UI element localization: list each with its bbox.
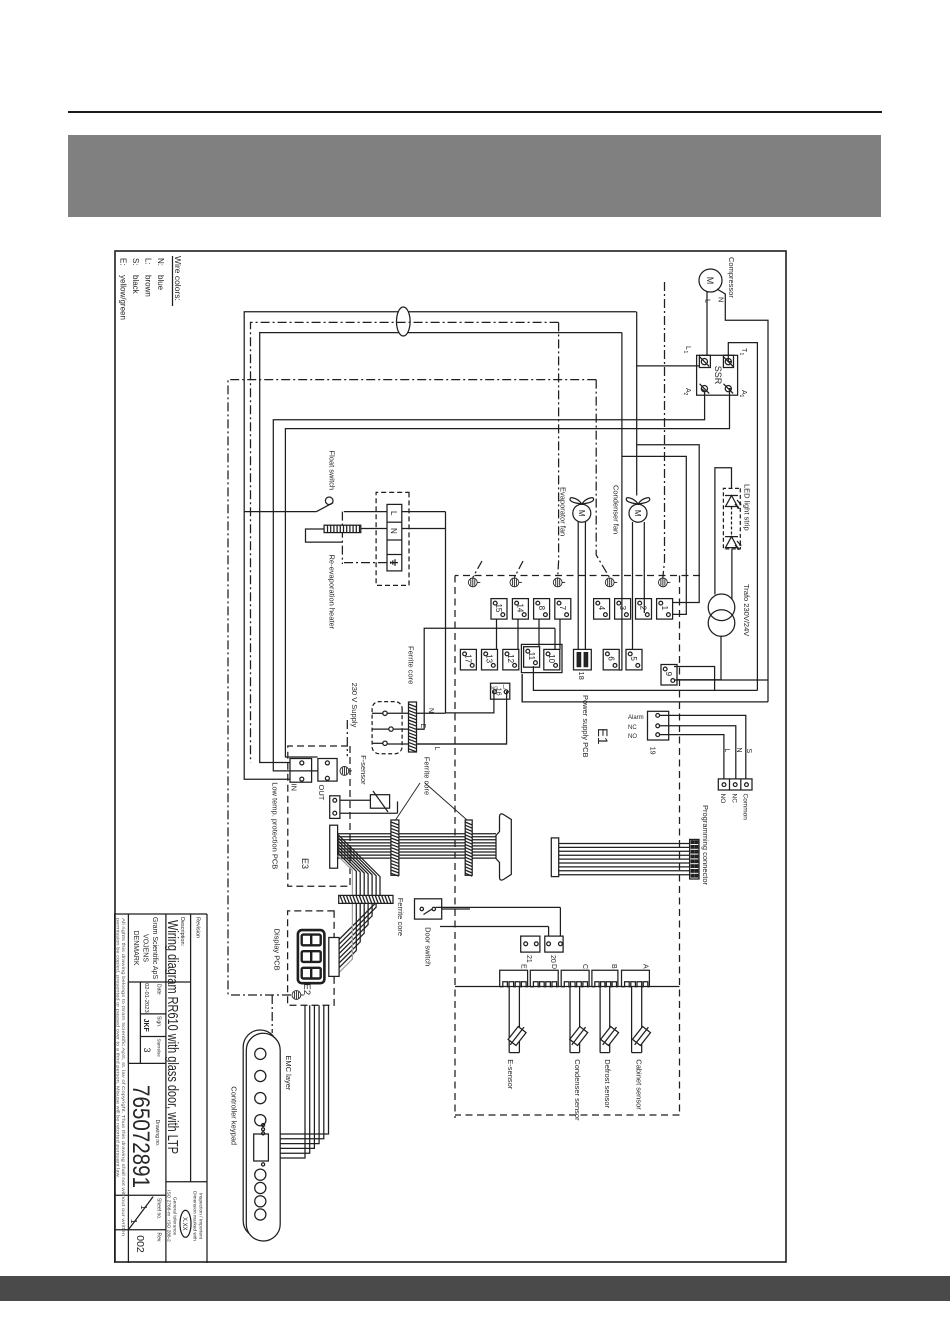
svg-text:C: C: [581, 964, 588, 969]
wire 8 to 11: [538, 619, 540, 647]
svg-text:M: M: [633, 510, 642, 517]
dash-dot earth link: [341, 512, 343, 564]
wire SSR A2 to OUT: [273, 389, 704, 771]
svg-text:14: 14: [516, 603, 525, 612]
svg-text:2: 2: [682, 393, 688, 396]
svg-text:18: 18: [577, 672, 586, 680]
float switch: [317, 497, 334, 512]
wire LED left to trafo: [715, 468, 732, 595]
terminal 14: [512, 599, 528, 620]
svg-text:Sign.: Sign.: [156, 1016, 162, 1027]
svg-text:EMC layer: EMC layer: [284, 1055, 293, 1091]
wire 15 to 13: [496, 619, 498, 649]
terminal 2: [636, 599, 652, 620]
svg-text:SSR: SSR: [713, 366, 723, 385]
ground symbol G1: [468, 578, 480, 587]
Defrost sensor: [599, 987, 621, 1053]
wire F-sensor b: [340, 812, 398, 814]
svg-text:15: 15: [494, 603, 503, 612]
terminal 10: [544, 649, 560, 670]
svg-text:Float switch: Float switch: [328, 451, 337, 491]
wire NC: [660, 726, 736, 779]
svg-text:Low temp. protection PCB: Low temp. protection PCB: [271, 782, 280, 869]
230 V supply connector: [372, 702, 402, 754]
svg-text:General tolerance: General tolerance: [172, 1197, 178, 1235]
title block: [114, 914, 207, 1263]
svg-text:Controller keypad: Controller keypad: [230, 1086, 239, 1145]
svg-text:yellow/green: yellow/green: [119, 275, 128, 320]
wire 16 L to supply L: [416, 692, 509, 744]
svg-text:Condenser sensor: Condenser sensor: [573, 1059, 582, 1121]
svg-text:Evaporator fan: Evaporator fan: [559, 487, 568, 536]
connector D: [530, 970, 558, 986]
wire door switch a: [436, 906, 561, 908]
dashed E1 top: [679, 576, 681, 1114]
wire L cell up: [402, 511, 446, 513]
svg-text:B: B: [610, 964, 617, 969]
ground symbol G5: [659, 578, 671, 587]
wire alarm to common: [660, 715, 746, 779]
svg-text:E1: E1: [595, 728, 610, 745]
connector C: [561, 970, 589, 986]
wire SSR A1 to OUT: [285, 389, 731, 757]
programming connector: [690, 839, 699, 879]
svg-text:765072891: 765072891: [127, 1085, 154, 1188]
EMC layer outline: [243, 1030, 277, 1238]
fuse 18: [574, 649, 592, 670]
IN connector: [290, 759, 312, 783]
svg-text:Defrost sensor: Defrost sensor: [603, 1059, 612, 1108]
outer bracket terminals 10 11: [521, 644, 562, 672]
wire cond fan to terminal 2: [643, 522, 645, 613]
svg-text:Wire colors:: Wire colors:: [173, 256, 183, 301]
wires display to keypad: [268, 1005, 328, 1158]
svg-text:Display PCB: Display PCB: [273, 929, 282, 971]
svg-text:Revision: Revision: [195, 917, 201, 938]
svg-text:Sheet no.: Sheet no.: [156, 1198, 162, 1219]
wire SSR L1 drop to mains L: [636, 365, 699, 367]
wire 11 right stub: [521, 674, 523, 702]
svg-text:19: 19: [649, 747, 656, 755]
header gray band: [68, 135, 881, 217]
solid state relay SSR: [697, 355, 738, 395]
svg-text:1: 1: [139, 1205, 148, 1210]
svg-text:NC: NC: [628, 725, 637, 731]
E3 ribbon connector: [330, 825, 338, 868]
wire supply E up: [393, 728, 424, 730]
wire mains L loop: [244, 312, 636, 780]
svg-text:L:: L:: [144, 258, 153, 265]
dash-dot enclosure 1: [251, 322, 559, 762]
terminal 4: [594, 599, 610, 620]
svg-text:M: M: [705, 277, 715, 285]
wire 14 to 12: [517, 619, 519, 649]
svg-text:NO: NO: [628, 734, 637, 740]
ferrite core ribbon lower: [391, 820, 399, 876]
dash-dot OUT earth link: [346, 720, 348, 756]
controller keypad: [246, 1033, 280, 1241]
svg-text:7: 7: [558, 606, 567, 611]
Condenser sensor: [568, 987, 590, 1053]
wire 16 NO to supply N: [446, 692, 494, 713]
svg-text:Re-evaporation heater: Re-evaporation heater: [328, 555, 337, 630]
wire E1 PCB edge: [455, 986, 680, 988]
svg-text:Størrelse: Størrelse: [157, 1039, 162, 1058]
svg-text:D: D: [550, 964, 557, 969]
svg-text:Alarm: Alarm: [628, 715, 644, 721]
svg-text:S: S: [745, 749, 752, 754]
svg-text:E:: E:: [119, 258, 128, 266]
terminal 16: [491, 683, 510, 699]
svg-text:L: L: [704, 299, 713, 303]
svg-text:Cabinet sensor: Cabinet sensor: [635, 1059, 644, 1110]
dash-dot EMC to keypad: [271, 995, 273, 1033]
svg-text:Ferrite core: Ferrite core: [407, 646, 416, 684]
dashed box around mains block: [376, 492, 409, 585]
svg-text:Common: Common: [742, 794, 749, 821]
wire mains L top run to condenser fan: [636, 312, 638, 496]
svg-text:NO: NO: [491, 686, 498, 691]
svg-text:13: 13: [485, 654, 494, 663]
svg-text:L: L: [503, 685, 506, 691]
wire supply N up: [387, 712, 445, 714]
terminal 12: [503, 649, 519, 670]
svg-text:1: 1: [738, 395, 744, 398]
terminal 9: [661, 665, 677, 686]
alarm connector 19: [648, 711, 669, 740]
F-sensor connector: [330, 796, 340, 819]
svg-text:02-01-2023: 02-01-2023: [143, 983, 149, 1013]
svg-text:8: 8: [537, 606, 546, 611]
svg-text:L: L: [389, 511, 398, 516]
svg-text:L: L: [433, 747, 440, 751]
svg-text:black: black: [131, 275, 140, 295]
wire door switch b: [440, 926, 549, 928]
svg-text:permission be copied, presente: permission be copied, presented or passe…: [116, 918, 121, 1178]
svg-text:1: 1: [660, 606, 669, 611]
transformer trafo 230V/24V: [708, 594, 735, 621]
svg-text:12: 12: [506, 654, 515, 663]
wire N cell up: [402, 528, 446, 530]
wire 10 left stub: [554, 628, 556, 649]
wire F-sensor top: [397, 801, 399, 813]
ferrite core display ribbon: [339, 895, 393, 903]
svg-text:Ferrite core: Ferrite core: [423, 757, 432, 795]
wire F-sensor a: [340, 799, 371, 801]
svg-text:E-sensor: E-sensor: [506, 1059, 515, 1090]
svg-text:1: 1: [738, 353, 744, 356]
svg-text:Ferrite core: Ferrite core: [396, 898, 405, 936]
svg-text:20: 20: [549, 955, 556, 963]
svg-text:Rev.: Rev.: [156, 1233, 162, 1243]
wire mains N loop: [260, 333, 622, 763]
svg-text:JKF: JKF: [142, 1019, 149, 1033]
ferrite core ribbon upper: [465, 820, 472, 876]
NO NC Common terminal strip: [718, 779, 752, 790]
connector B: [592, 970, 618, 986]
wire evap fan to fuse 18 b: [577, 522, 579, 649]
mains terminal block L N earth: [387, 504, 402, 571]
svg-text:E: E: [419, 724, 426, 729]
cable loop oval: [396, 307, 410, 336]
wire float switch lower: [244, 511, 316, 513]
svg-text:N: N: [717, 297, 726, 302]
svg-text:10: 10: [547, 654, 556, 663]
header rule: [68, 111, 882, 113]
svg-text:Condenser fan: Condenser fan: [612, 485, 621, 534]
svg-text:blue: blue: [156, 275, 165, 291]
svg-text:All rights this drawing belong: All rights this drawing belongs to Gram …: [121, 918, 126, 1237]
wire mains N top run: [619, 333, 622, 670]
wire LED right to trafo: [731, 549, 733, 599]
OUT connector: [318, 759, 337, 782]
wire cond fan to terminal 5: [632, 522, 634, 649]
sheet cell diagonal: [128, 1197, 153, 1230]
svg-text:F-sensor: F-sensor: [359, 755, 368, 785]
wire float switch upper: [344, 511, 387, 513]
wire SSR T1 run: [728, 343, 757, 691]
svg-text:N: N: [427, 708, 434, 713]
wire N drop to terminal 11 area: [522, 674, 768, 702]
pointer line b: [425, 783, 467, 820]
LED light strip: [723, 488, 740, 549]
svg-text:E: E: [520, 964, 527, 969]
evaporator fan M: [570, 498, 593, 523]
wire N drop to terminal 9: [674, 679, 768, 681]
svg-text:N:: N:: [156, 258, 165, 266]
wire T1 drop to terminal 11: [533, 666, 757, 690]
wire evap fan to fuse 18 a: [584, 522, 586, 649]
wire N branch to terminal 1: [622, 456, 686, 614]
terminal 13: [482, 649, 498, 670]
svg-text:DENMARK: DENMARK: [132, 930, 139, 965]
wire L branch to terminal 1: [637, 445, 700, 603]
X.XX oval: [180, 1210, 191, 1237]
svg-text:Programming connector: Programming connector: [701, 805, 710, 886]
svg-text:6: 6: [606, 656, 615, 661]
terminal 11: [524, 647, 540, 668]
svg-text:3: 3: [618, 606, 627, 611]
pointer line a: [396, 783, 421, 820]
svg-text:M: M: [577, 510, 586, 517]
terminal 6: [603, 649, 619, 670]
svg-text:IN: IN: [290, 784, 299, 792]
svg-text:N: N: [735, 748, 742, 753]
svg-text:N: N: [389, 528, 398, 534]
svg-text:17: 17: [464, 654, 473, 663]
svg-text:Wiring diagram RR610 with glas: Wiring diagram RR610 with glass door, wi…: [164, 920, 181, 1154]
ground symbol G3: [553, 578, 565, 587]
svg-text:Compressor: Compressor: [727, 257, 736, 298]
svg-text:9: 9: [664, 672, 673, 677]
Cabinet sensor: [631, 987, 653, 1053]
dash-dot compressor shield: [663, 282, 665, 578]
svg-text:S:: S:: [131, 258, 140, 266]
svg-text:002: 002: [134, 1235, 146, 1253]
connector A: [622, 970, 650, 986]
terminal 17: [460, 649, 476, 670]
wire earth run to supply E: [416, 628, 555, 729]
re-evaporation heater R1: [324, 525, 361, 532]
svg-text:LED light strip: LED light strip: [743, 484, 752, 531]
dashed E1 bottom: [454, 576, 456, 1119]
dash-dot stub ground 2: [514, 561, 523, 578]
svg-text:E2: E2: [301, 984, 312, 996]
dash-dot enclosure 1 to ground: [557, 322, 560, 577]
dash-dot stub ground 1: [473, 561, 482, 578]
ground symbol OUT earth: [340, 767, 352, 776]
svg-text:OUT: OUT: [317, 785, 326, 801]
footer dark band: [0, 1276, 950, 1301]
svg-text:E3: E3: [300, 858, 310, 869]
wire heater top: [361, 528, 387, 530]
svg-text:1: 1: [682, 351, 688, 354]
wire NO: [660, 735, 724, 779]
ferrite core mains: [409, 702, 417, 752]
wire door switch to E1: [442, 908, 470, 910]
svg-text:brown: brown: [144, 275, 153, 297]
svg-text:Date: Date: [156, 984, 162, 995]
terminal 3: [615, 599, 631, 620]
ground symbol G2: [510, 578, 522, 587]
wire 7 to 10: [559, 619, 561, 649]
dash-dot enclosure 2 to ground: [596, 380, 609, 578]
plug connector E1 ribbon: [496, 814, 511, 880]
terminal 15: [491, 599, 507, 620]
wire door switch b2: [548, 927, 550, 937]
svg-text:2: 2: [639, 606, 648, 611]
display PCB dashed box: [288, 911, 335, 1005]
terminal 7: [555, 599, 571, 620]
condenser fan M: [626, 498, 649, 523]
dash-dot EMC riser: [228, 994, 291, 996]
ribbon cable programming: [559, 844, 690, 875]
svg-text:L: L: [723, 749, 730, 753]
dash-dot enclosure 2: [228, 380, 596, 995]
svg-text:11: 11: [527, 652, 536, 661]
svg-text:1: 1: [129, 1219, 138, 1224]
E3 low temp protection PCB dashed box: [288, 746, 350, 886]
ribbon cable E3 to display: [338, 834, 380, 972]
wire compressor N run: [717, 289, 768, 702]
dash-dot earth cell drop: [342, 562, 387, 564]
terminal 8: [534, 599, 550, 620]
svg-text:VOJENS: VOJENS: [142, 934, 149, 962]
terminal 5: [626, 649, 642, 670]
connector E: [500, 970, 528, 986]
svg-text:Power supply PCB: Power supply PCB: [581, 695, 590, 758]
wire mains to supply junction: [445, 512, 447, 714]
svg-text:Gram Scientific ApS: Gram Scientific ApS: [151, 917, 158, 980]
wire heater return: [306, 529, 343, 542]
svg-text:A: A: [641, 964, 648, 969]
svg-text:4: 4: [597, 606, 606, 611]
terminal 1: [657, 599, 673, 620]
ground symbol G4: [605, 578, 617, 587]
wire branch to terminal 9 pin: [674, 667, 715, 691]
programming ribbon end bar: [551, 838, 558, 877]
dashed E1 right: [455, 1114, 680, 1116]
ribbon cable E3 to E1: [338, 834, 496, 858]
display connector strip: [329, 938, 339, 977]
svg-text:Trafo 230V/24V: Trafo 230V/24V: [742, 584, 751, 636]
7-segment display: [298, 930, 787, 983]
svg-text:NC: NC: [731, 794, 738, 804]
svg-text:Inspection / Importent: Inspection / Importent: [198, 1193, 204, 1240]
svg-text:5: 5: [629, 656, 638, 661]
wire supply L up: [387, 743, 506, 745]
F-sensor thermistor: [370, 791, 389, 812]
wire compressor L to SSR L1: [706, 292, 708, 356]
terminal 20: [545, 936, 563, 952]
svg-text:Door switch: Door switch: [424, 927, 433, 966]
ground symbol E2 earth: [292, 991, 304, 1000]
terminal 21: [521, 936, 540, 952]
compressor M1: [699, 269, 722, 292]
svg-text:3: 3: [142, 1047, 152, 1052]
svg-text:L: L: [684, 346, 691, 350]
wire door switch a2: [559, 907, 561, 936]
door switch: [415, 899, 442, 919]
svg-text:Drawing no.: Drawing no.: [154, 1120, 160, 1147]
svg-text:230 V Supply: 230 V Supply: [350, 683, 359, 728]
svg-text:21: 21: [525, 955, 532, 963]
dashed shield bus: [455, 575, 700, 577]
E-sensor: [506, 987, 528, 1053]
wire trafo to terminal 9: [676, 636, 721, 679]
drawing frame: [115, 251, 786, 1262]
svg-text:NO: NO: [719, 794, 726, 804]
svg-text:X.XX: X.XX: [181, 1217, 187, 1231]
